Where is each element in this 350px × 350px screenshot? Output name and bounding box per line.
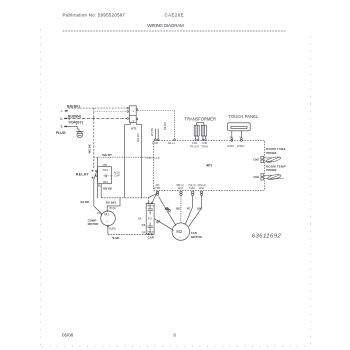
wire to compressor terminal — [94, 206, 101, 213]
svg-text:4T2B: 4T2B — [154, 186, 160, 190]
control board AP1 dashed box — [154, 140, 265, 190]
svg-text:1151: 1151 — [178, 186, 184, 190]
svg-text:OM OA: OM OA — [147, 231, 154, 234]
svg-text:OR: OR — [142, 231, 146, 234]
wire dotted to middle pin — [94, 111, 127, 113]
svg-text:BK(S): BK(S) — [110, 207, 117, 210]
svg-text:BN BK: BN BK — [103, 186, 112, 190]
svg-text:B2 RD: B2 RD — [81, 200, 90, 204]
svg-text:W1 BN: W1 BN — [150, 128, 154, 136]
wire YE to fan — [185, 196, 192, 225]
svg-text:C1: C1 — [142, 223, 146, 227]
wire dashed compressor to capacitor — [108, 233, 149, 235]
relay contact circles — [96, 170, 98, 172]
connector pin 1152 — [192, 191, 194, 193]
page border bottom dotted — [42, 346, 310, 348]
svg-text:RD1: RD1 — [103, 169, 109, 172]
wire compressor bottom — [107, 227, 109, 235]
header rule dashed — [63, 30, 287, 32]
svg-text:AR-L1: AR-L1 — [168, 142, 176, 145]
wire RD to fan — [159, 197, 176, 226]
svg-text:OM OA: OM OA — [147, 204, 154, 207]
svg-text:CN3: CN3 — [253, 175, 259, 179]
wire bus to compressor top — [107, 198, 120, 210]
svg-text:RELAY: RELAY — [76, 173, 89, 177]
svg-text:AP1: AP1 — [206, 164, 212, 168]
wire stub board pin 4T1 — [154, 129, 156, 140]
probe CN3 room temp — [261, 174, 284, 181]
connector pin DISP2 — [241, 138, 243, 140]
svg-text:Publication No: 5995520587: Publication No: 5995520587 — [63, 13, 126, 18]
svg-text:MOTOR: MOTOR — [88, 222, 100, 226]
svg-text:BU BK1: BU BK1 — [106, 200, 117, 204]
wire stub board pin 4T2 — [157, 129, 159, 140]
svg-text:*E BK: *E BK — [112, 236, 121, 240]
svg-text:PROBE: PROBE — [266, 168, 276, 172]
connector pin AR-L1 — [174, 139, 176, 141]
ground symbol — [77, 126, 79, 131]
svg-text:BU(R): BU(R) — [109, 228, 116, 231]
connector pin 4T2B — [157, 191, 159, 193]
compressor motor M1 — [100, 210, 115, 227]
svg-text:06/08: 06/08 — [62, 333, 74, 338]
wire bus dashed to capacitor — [101, 198, 148, 204]
wire transformer leads — [195, 136, 197, 139]
wire BU to fan dotted — [180, 196, 182, 223]
svg-text:1152: 1152 — [189, 186, 195, 190]
connector pin CN5 — [202, 139, 204, 141]
svg-text:WIRING DIAGRAM: WIRING DIAGRAM — [147, 23, 184, 28]
connector pin 1153 — [201, 191, 203, 193]
wire N vertical drop — [93, 108, 95, 168]
svg-text:TRANSFORMER: TRANSFORMER — [185, 117, 217, 122]
svg-text:DISP1: DISP1 — [227, 145, 235, 148]
terminal block KT1 — [127, 106, 138, 123]
svg-text:CS: CS — [97, 212, 101, 215]
page border left dotted — [40, 29, 42, 346]
svg-text:RD: RD — [165, 207, 169, 211]
wire KT1 right down bus — [137, 123, 142, 198]
page border right dotted — [310, 36, 312, 346]
svg-text:63611692: 63611692 — [252, 233, 282, 239]
wire capacitor to 4T2B pin — [152, 191, 158, 203]
node N junction — [93, 118, 95, 120]
svg-text:M2: M2 — [176, 229, 182, 234]
svg-text:DISP2: DISP2 — [237, 145, 245, 148]
svg-text:W1 BU: W1 BU — [136, 133, 140, 142]
wire KT1 left down bus — [125, 123, 131, 198]
wire N (BU) long dash — [68, 117, 127, 119]
svg-text:BN RT: BN RT — [102, 153, 112, 157]
svg-text:-OR-CAP: -OR-CAP — [145, 156, 160, 160]
svg-text:BK: BK — [138, 218, 142, 221]
svg-text:1153: 1153 — [199, 186, 205, 190]
transformer T1 primary winding — [194, 125, 199, 136]
connector pin 1151 — [180, 191, 182, 193]
svg-text:L: L — [61, 109, 63, 113]
svg-text:M1: M1 — [104, 213, 109, 217]
wire touch panel lead 1 — [231, 131, 233, 138]
svg-text:BU: BU — [176, 207, 180, 211]
wire relay box to bus — [100, 184, 102, 198]
svg-text:KT1: KT1 — [131, 126, 137, 130]
wire BN RT dashed to board — [94, 156, 154, 158]
node plug N mark — [69, 118, 71, 119]
svg-text:CAP: CAP — [148, 236, 154, 240]
wire touch panel lead 2 — [240, 131, 242, 138]
relay switch arm — [94, 171, 97, 179]
wire transformer top bridge — [197, 123, 204, 126]
svg-text:165: 165 — [102, 163, 107, 167]
svg-text:MOTOR: MOTOR — [191, 235, 203, 239]
svg-text:CAE26E: CAE26E — [165, 13, 184, 18]
capacitor C1 — [146, 203, 154, 235]
svg-text:W2 BK: W2 BK — [88, 143, 92, 153]
wire BK to fan — [189, 196, 202, 227]
svg-text:4T1B: 4T1B — [152, 142, 158, 145]
relay box — [98, 157, 113, 198]
wire BN capacitor to fan — [154, 219, 173, 231]
wire E (Y/GN) — [67, 125, 78, 127]
probe CN2 room tube — [261, 156, 281, 164]
wire 4T2B pin stub — [149, 193, 158, 198]
svg-text:BK W2: BK W2 — [163, 121, 167, 130]
wire L (BN) dashed — [69, 107, 127, 109]
svg-text:Y/GN[GY]: Y/GN[GY] — [68, 121, 83, 125]
svg-text:CAP: CAP — [114, 173, 120, 177]
svg-text:BK1: BK1 — [103, 181, 108, 184]
wire dashed KT1 to AR pin — [138, 111, 175, 140]
transformer T1 secondary winding — [201, 125, 206, 136]
svg-text:BN(BK): BN(BK) — [67, 105, 80, 109]
svg-text:TOUCH PANEL: TOUCH PANEL — [228, 114, 259, 119]
svg-text:PLUG: PLUG — [56, 131, 66, 135]
svg-text:FC1: FC1 — [148, 218, 153, 221]
fan motor M2 — [172, 223, 189, 240]
connector pin CN6 — [195, 139, 197, 141]
touch panel body — [228, 123, 251, 131]
connector pin DISP1 — [231, 138, 233, 140]
svg-text:CN2: CN2 — [253, 157, 259, 161]
svg-text:PROBE: PROBE — [266, 151, 276, 155]
connector pin 4T1B — [154, 139, 156, 141]
svg-text:TR-OUT: TR-OUT — [190, 145, 200, 148]
svg-text:BU(WH): BU(WH) — [68, 114, 81, 118]
svg-text:TR-IN: TR-IN — [201, 145, 208, 148]
svg-text:YE: YE — [186, 207, 190, 211]
